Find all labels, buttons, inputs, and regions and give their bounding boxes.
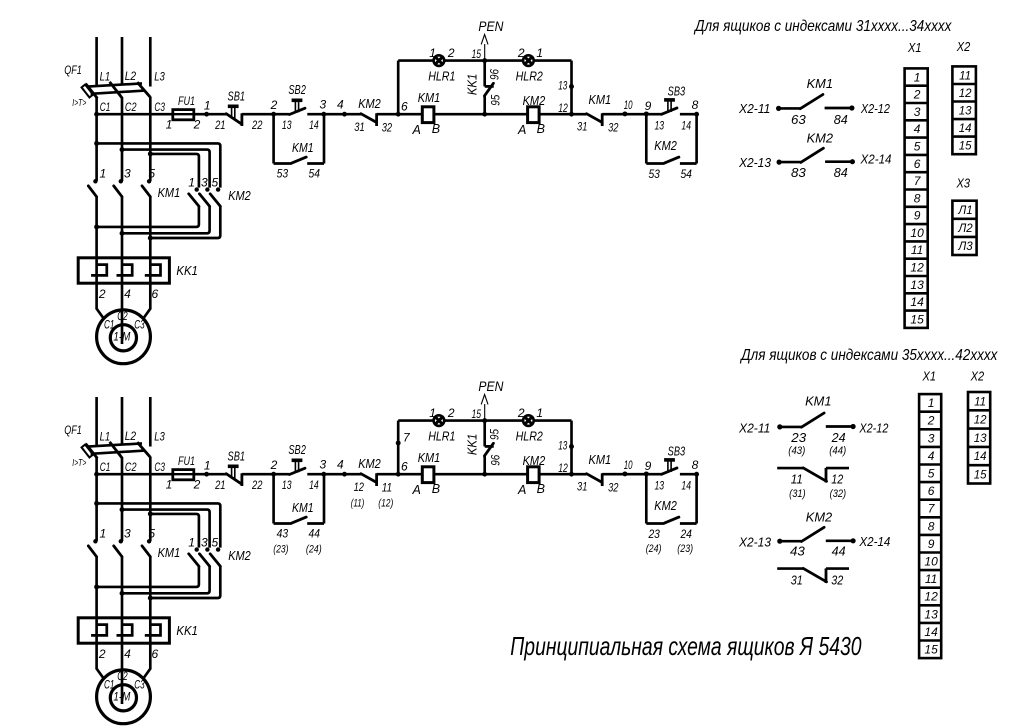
svg-text:KM2: KM2 [807, 131, 834, 146]
wire: lead 4 to motor [121, 643, 124, 704]
svg-text:KM2: KM2 [654, 139, 677, 153]
svg-text:10: 10 [624, 460, 633, 472]
node 6 [396, 472, 401, 477]
svg-text:SB2: SB2 [288, 443, 306, 457]
svg-text:PEN: PEN [478, 19, 503, 34]
wire: lead 6 to motor [143, 643, 151, 679]
svg-text:X2-11: X2-11 [738, 102, 770, 116]
node 2 [271, 472, 276, 477]
svg-text:84: 84 [834, 166, 848, 180]
wire: pole 5 down through KK1 [149, 557, 152, 643]
lamp HLR1 [434, 55, 445, 66]
svg-text:KM1: KM1 [418, 451, 441, 465]
svg-text:C3: C3 [134, 679, 145, 691]
svg-text:14: 14 [959, 123, 972, 135]
wire: L2 feeder below QF1 [121, 458, 124, 541]
branch: SB2 bypass with KM1 aux contact [272, 114, 275, 163]
svg-text:PEN: PEN [478, 379, 503, 394]
wire: KM1 coil to KK1 junction [434, 473, 528, 476]
svg-text:2: 2 [517, 406, 525, 420]
svg-text:(24): (24) [646, 543, 662, 555]
svg-text:15: 15 [910, 312, 924, 326]
svg-text:L2: L2 [125, 429, 137, 443]
contact KK1 NC (thermal relay) [483, 421, 486, 447]
svg-text:C2: C2 [125, 460, 137, 474]
svg-text:HLR1: HLR1 [428, 429, 455, 443]
svg-text:2: 2 [913, 88, 921, 102]
svg-text:(24): (24) [306, 543, 322, 555]
svg-text:SB1: SB1 [228, 449, 246, 463]
svg-text:KM2: KM2 [358, 457, 381, 471]
svg-text:KM1: KM1 [805, 393, 831, 408]
thermal relay KK1 heaters [78, 258, 169, 283]
svg-text:L1: L1 [100, 429, 111, 443]
node 10 [622, 111, 627, 116]
fuse FU1 [173, 113, 194, 116]
fuse FU1 [173, 473, 194, 476]
svg-text:Принципиальная схема ящиков Я: Принципиальная схема ящиков Я 5430 [510, 631, 862, 661]
svg-text:QF1: QF1 [64, 423, 82, 437]
wire: bypass L2 to KM2 pole 3 [122, 510, 210, 548]
wire: phase L1 drop (bottom) [95, 397, 98, 445]
QF1 pole 3 blade [137, 442, 150, 457]
svg-text:54: 54 [680, 167, 692, 181]
svg-text:96: 96 [488, 69, 502, 80]
wire: bypass L3 to KM2 pole 1 [150, 514, 199, 548]
svg-text:12: 12 [831, 473, 843, 487]
thermal relay KK1 heaters [78, 618, 169, 643]
svg-text:9: 9 [645, 99, 652, 113]
KM1 main pole 3 [119, 179, 123, 183]
svg-text:X2: X2 [970, 369, 985, 384]
wire: KM2 pole 1 to L1 lower tap [97, 566, 199, 587]
wire: HLR2 to right riser [534, 59, 572, 62]
svg-text:4: 4 [337, 97, 344, 111]
wire: lead 4 to motor [121, 283, 124, 344]
svg-text:3: 3 [124, 527, 131, 541]
KM1 main pole 1 [93, 179, 97, 183]
svg-text:SB3: SB3 [668, 444, 686, 458]
wire: HLR2 to right riser [534, 419, 572, 422]
svg-text:(32): (32) [830, 488, 847, 500]
KM2 main pole 1 [195, 547, 199, 551]
junction: control tap on L1 [94, 112, 99, 117]
svg-text:Л1: Л1 [957, 205, 972, 217]
svg-text:B: B [537, 482, 545, 496]
wire: phase L2 drop [121, 37, 124, 85]
svg-text:C1: C1 [104, 319, 114, 331]
wire: lamp branch left segment [398, 59, 433, 62]
node 9 [644, 471, 649, 476]
svg-text:HLR1: HLR1 [428, 69, 455, 83]
svg-text:12: 12 [558, 461, 568, 475]
svg-text:A: A [412, 123, 421, 137]
svg-text:5: 5 [148, 527, 155, 541]
svg-text:X1: X1 [922, 369, 936, 384]
wire: KM2 coil to node 12 [539, 113, 571, 116]
svg-text:84: 84 [834, 113, 848, 127]
wire: KM2 coil to node 12 [539, 473, 571, 476]
svg-text:9: 9 [914, 209, 921, 223]
wire: KM2 pole 1 to L1 lower tap [97, 206, 199, 227]
svg-text:Для ящиков с индексами 35хххх.: Для ящиков с индексами 35хххх...42хххх [739, 347, 998, 364]
node 8 [694, 472, 699, 477]
node 6 [396, 112, 401, 117]
junction: bypass taps [94, 141, 99, 146]
junction: KK1 contact / control line [482, 472, 487, 477]
svg-text:(31): (31) [789, 488, 806, 500]
KK1 heater element [117, 265, 133, 276]
svg-text:14: 14 [924, 625, 938, 639]
svg-text:14: 14 [681, 481, 691, 493]
svg-text:KM1: KM1 [807, 76, 833, 91]
svg-text:FU1: FU1 [178, 454, 195, 468]
svg-text:(12): (12) [378, 498, 393, 510]
svg-text:1: 1 [166, 118, 173, 132]
terminal strip X3 [952, 201, 976, 255]
svg-text:32: 32 [608, 120, 619, 134]
svg-text:KM1: KM1 [418, 91, 441, 105]
wire: SB1 to node 2 [242, 113, 290, 116]
branch: SB2 bypass with KM1 aux contact [272, 474, 275, 523]
svg-text:C3: C3 [134, 319, 145, 331]
svg-text:Л2: Л2 [957, 223, 973, 235]
wire: pole 3 down through KK1 [121, 557, 124, 643]
svg-text:KM1: KM1 [292, 501, 314, 515]
QF1 pole 1 blade + release box [86, 84, 98, 99]
svg-text:A: A [412, 483, 421, 497]
wire: node 3 to node 4 to KM2 interlock [324, 473, 361, 476]
wire: L2 feeder below QF1 [121, 98, 124, 181]
svg-text:1: 1 [429, 406, 436, 420]
wire: KM2 interlock to node 6 [377, 113, 399, 116]
svg-text:12: 12 [910, 261, 924, 275]
svg-text:15: 15 [974, 470, 987, 482]
node 4 [342, 472, 347, 477]
wire: node 15 to HLR2 [485, 419, 523, 422]
KK1 heater element [91, 265, 107, 276]
svg-text:14: 14 [681, 121, 691, 133]
svg-text:9: 9 [928, 537, 935, 551]
junction: KK1 contact / control line [482, 112, 487, 117]
svg-text:X1: X1 [907, 40, 921, 55]
svg-text:11: 11 [925, 572, 937, 586]
svg-text:Л3: Л3 [957, 241, 973, 253]
svg-text:4: 4 [124, 287, 131, 301]
node 12 [569, 472, 574, 477]
wire: lamp branch left segment [398, 419, 433, 422]
wire: KM2 pole 5 to L3 lower tap [150, 566, 220, 598]
wire: control line to fuse [97, 113, 173, 116]
svg-text:(23): (23) [273, 543, 288, 555]
svg-text:5: 5 [212, 535, 219, 549]
svg-text:Для ящиков с индексами 31хххх.: Для ящиков с индексами 31хххх...34хххх [693, 18, 952, 35]
wire: pole 5 down through KK1 [149, 197, 152, 283]
svg-text:95: 95 [488, 95, 502, 106]
svg-text:2: 2 [270, 98, 278, 112]
svg-text:3: 3 [124, 167, 131, 181]
svg-text:KM2: KM2 [654, 499, 677, 513]
svg-text:31: 31 [354, 120, 364, 134]
node 12 [569, 112, 574, 117]
svg-text:2: 2 [927, 414, 935, 428]
svg-text:C3: C3 [154, 100, 165, 114]
svg-text:SB3: SB3 [668, 84, 686, 98]
svg-text:X2-12: X2-12 [859, 422, 889, 436]
svg-text:31: 31 [791, 573, 803, 587]
svg-text:13: 13 [655, 121, 665, 133]
terminal strip X2 [952, 66, 976, 154]
svg-text:24: 24 [680, 527, 693, 541]
svg-text:96: 96 [488, 455, 502, 466]
contact KM1 aux NC 11-12 (panel) [777, 467, 803, 470]
svg-text:11: 11 [959, 70, 971, 82]
lamp HLR2 [523, 55, 534, 66]
svg-text:3: 3 [320, 457, 327, 471]
svg-text:QF1: QF1 [64, 63, 82, 77]
svg-text:4: 4 [337, 457, 344, 471]
svg-text:A: A [517, 483, 526, 497]
node 13 terminal [569, 444, 574, 449]
svg-text:KM1: KM1 [292, 141, 314, 155]
svg-text:1-M: 1-M [113, 691, 130, 703]
wire: L1 feeder below QF1 [95, 458, 98, 541]
svg-text:X2-12: X2-12 [860, 102, 890, 116]
svg-text:43: 43 [277, 527, 289, 541]
svg-text:13: 13 [282, 120, 292, 132]
wire: KM2 interlock to node 6 [377, 473, 399, 476]
wire: lead 6 to motor [143, 283, 151, 319]
wire: node 12 to KM1 interlock [572, 473, 587, 476]
svg-text:KM1: KM1 [589, 93, 612, 107]
svg-text:4: 4 [914, 122, 921, 136]
KK1 heater element [145, 265, 161, 276]
svg-text:1: 1 [204, 459, 211, 473]
svg-text:23: 23 [648, 527, 661, 541]
svg-text:B: B [432, 122, 440, 136]
wire: HLR1 to node 15 [444, 419, 485, 422]
wire: node 3 to node 4 to KM2 interlock [324, 113, 361, 116]
wire: L3 feeder below QF1 [149, 457, 152, 541]
node 10 [622, 471, 627, 476]
wire: lead 2 to motor [97, 283, 105, 319]
svg-text:15: 15 [472, 47, 482, 61]
svg-text:5: 5 [212, 175, 219, 189]
svg-text:KM2: KM2 [228, 189, 251, 203]
svg-text:14: 14 [309, 120, 319, 132]
svg-text:21: 21 [214, 478, 225, 492]
svg-text:5: 5 [928, 467, 935, 481]
wire: SB2 to node 3 [307, 473, 324, 476]
svg-text:1: 1 [166, 478, 173, 492]
wire: reversing bypass L1 to KM2 pole 5 [97, 143, 221, 187]
wire: phase L3 drop [149, 37, 152, 87]
svg-text:C2: C2 [117, 311, 128, 323]
lamp HLR1 [434, 415, 445, 426]
junction: bypass taps [94, 501, 99, 506]
svg-text:1: 1 [99, 167, 106, 181]
KM1 main pole 5 [147, 539, 151, 543]
svg-text:KM2: KM2 [358, 97, 381, 111]
svg-text:6: 6 [928, 484, 935, 498]
svg-text:KM2: KM2 [523, 94, 546, 108]
svg-text:12: 12 [959, 88, 972, 100]
svg-text:14: 14 [910, 295, 924, 309]
wire: pole 1 down through KK1 [95, 197, 98, 283]
wire: SB2 to node 3 [307, 113, 324, 116]
PEN pigtail arrow [484, 44, 486, 59]
svg-text:12: 12 [974, 415, 987, 427]
svg-text:1: 1 [188, 535, 195, 549]
svg-text:13: 13 [924, 607, 938, 621]
node 3 [321, 472, 326, 477]
contact KK1 NC (thermal relay) [483, 61, 486, 87]
contact KM2 aux NC 31-32 (panel) [777, 567, 803, 570]
svg-text:13: 13 [910, 278, 924, 292]
svg-text:KK1: KK1 [176, 264, 198, 278]
svg-text:L2: L2 [125, 69, 137, 83]
node 3 [321, 112, 326, 117]
svg-text:11: 11 [382, 480, 392, 494]
wire: node 15 to HLR2 [485, 59, 523, 62]
svg-text:X2: X2 [956, 39, 971, 54]
QF1 pole 3 blade [137, 82, 150, 97]
svg-text:KM2: KM2 [523, 454, 546, 468]
motor 1-M [97, 670, 151, 724]
svg-text:3: 3 [201, 175, 208, 189]
svg-text:1: 1 [99, 527, 106, 541]
svg-text:L3: L3 [154, 69, 165, 83]
svg-text:32: 32 [831, 573, 843, 587]
wire: KM1 coil to KK1 junction [434, 113, 528, 116]
svg-text:KK1: KK1 [466, 74, 480, 96]
coil KM1 [398, 113, 422, 116]
svg-text:X2-13: X2-13 [738, 156, 771, 170]
wire: right riser [570, 421, 573, 475]
svg-text:6: 6 [151, 647, 158, 661]
svg-text:21: 21 [214, 118, 225, 132]
KM1 main pole 1 [93, 539, 97, 543]
wire: right riser [570, 61, 573, 115]
wire: fuse to SB1 [194, 473, 226, 476]
svg-text:10: 10 [624, 100, 633, 112]
svg-text:5: 5 [914, 140, 921, 154]
svg-text:1: 1 [188, 175, 195, 189]
svg-text:HLR2: HLR2 [516, 69, 543, 83]
svg-text:C2: C2 [117, 671, 128, 683]
wire: SB3 to node 8 [680, 473, 697, 476]
svg-text:KK1: KK1 [466, 434, 480, 456]
wire: phase L3 drop [149, 397, 152, 447]
wire: pole 1 down through KK1 [95, 557, 98, 643]
svg-text:(11): (11) [351, 497, 365, 509]
KM2 main pole 5 [216, 547, 220, 551]
branch: SB3 bypass with KM2 aux contact 53-54 [645, 114, 648, 163]
wire: L1 feeder below QF1 [95, 98, 98, 181]
branch: SB3 bypass with KM2 aux contact 23-24 [645, 474, 648, 523]
svg-text:22: 22 [251, 118, 262, 132]
svg-text:X2-13: X2-13 [738, 536, 771, 550]
svg-text:1: 1 [536, 406, 543, 420]
svg-text:12: 12 [924, 590, 938, 604]
node 8 [694, 112, 699, 117]
wire: KM1 interlock to node 9 [602, 473, 646, 476]
svg-text:13: 13 [558, 441, 567, 453]
svg-text:11: 11 [974, 396, 986, 408]
wire: SB3 to node 8 [680, 113, 697, 116]
node 2 [271, 112, 276, 117]
wire: phase L1 drop (top) [95, 37, 98, 85]
svg-text:(23): (23) [677, 543, 693, 555]
svg-text:KK1: KK1 [176, 624, 198, 638]
svg-text:22: 22 [251, 478, 262, 492]
svg-text:43: 43 [790, 544, 805, 558]
svg-text:31: 31 [577, 479, 587, 493]
node 4 [342, 112, 347, 117]
svg-text:53: 53 [648, 167, 660, 181]
svg-text:X2-11: X2-11 [738, 422, 770, 436]
terminal strip X2 [968, 392, 990, 484]
svg-text:32: 32 [608, 480, 619, 494]
wire: KM2 pole 3 to L2 lower tap [122, 206, 210, 233]
wire: lead 2 to motor [97, 643, 105, 679]
svg-text:24: 24 [831, 431, 846, 445]
wire: KM2 pole 5 to L3 lower tap [150, 206, 220, 238]
svg-text:15: 15 [959, 141, 972, 153]
svg-text:1: 1 [914, 70, 921, 84]
svg-text:B: B [432, 482, 440, 496]
KM2 main pole 3 [205, 547, 209, 551]
svg-text:6: 6 [914, 157, 921, 171]
svg-text:KM1: KM1 [158, 546, 181, 560]
svg-text:KM2: KM2 [806, 509, 833, 524]
svg-text:13: 13 [655, 481, 665, 493]
motor 1-M [97, 310, 151, 364]
svg-text:5: 5 [148, 167, 155, 181]
svg-text:1: 1 [928, 396, 935, 410]
KK1 heater element [117, 625, 133, 636]
svg-text:2: 2 [447, 46, 455, 60]
wire: L3 feeder below QF1 [149, 97, 152, 181]
svg-text:X3: X3 [956, 176, 971, 191]
svg-text:3: 3 [914, 105, 921, 119]
svg-text:C1: C1 [100, 100, 111, 114]
QF1 pole 2 blade [110, 442, 123, 459]
svg-text:(44): (44) [829, 445, 846, 457]
svg-text:13: 13 [282, 480, 292, 492]
svg-text:SB1: SB1 [228, 89, 246, 103]
svg-text:KM2: KM2 [228, 549, 251, 563]
wire: bypass L2 to KM2 pole 3 [122, 150, 210, 188]
KM2 main pole 3 [205, 187, 209, 191]
svg-text:11: 11 [791, 473, 803, 487]
KM1 main pole 3 [119, 539, 123, 543]
svg-text:4: 4 [124, 647, 131, 661]
svg-text:C1: C1 [104, 679, 114, 691]
svg-text:8: 8 [692, 98, 699, 112]
node 1 [204, 112, 209, 117]
svg-text:FU1: FU1 [178, 94, 195, 108]
KK1 heater element [91, 625, 107, 636]
svg-text:3: 3 [320, 97, 327, 111]
svg-text:1: 1 [536, 46, 543, 60]
svg-text:54: 54 [309, 167, 321, 181]
wire: fuse to SB1 [194, 113, 226, 116]
svg-text:I>T>: I>T> [72, 457, 86, 469]
wire: KM2 pole 3 to L2 lower tap [122, 566, 210, 593]
wire: node 12 to KM1 interlock [572, 113, 587, 116]
svg-text:8: 8 [928, 519, 935, 533]
